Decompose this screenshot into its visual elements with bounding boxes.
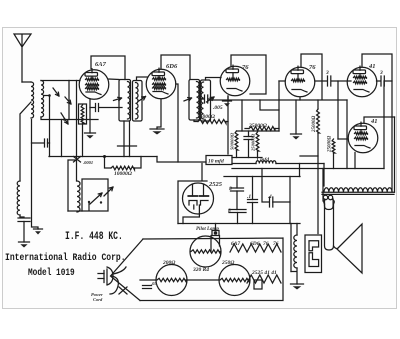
bus A y156.5: [49, 156, 157, 158]
outer right rail: [394, 117, 396, 192]
tube V1 6A7: [79, 70, 109, 100]
antenna: [14, 34, 31, 82]
grid wire: [279, 80, 285, 82]
resistor vertical second: [332, 139, 335, 153]
osc winding primary: [119, 80, 131, 122]
bus y163.5: [232, 163, 324, 165]
resistor 25000 first: [194, 120, 228, 122]
wire grid return: [41, 117, 98, 120]
osc arrow 2: [138, 97, 146, 102]
svg-text:6A7: 6A7: [95, 61, 107, 68]
rail x347: [346, 100, 348, 169]
capacitor right: [377, 80, 393, 82]
tuning gang vertical 1: [68, 81, 70, 120]
ground 6A7: [85, 132, 96, 134]
volume junction X: [74, 157, 81, 163]
cathode wire: [354, 153, 356, 169]
svg-text:.05: .05: [151, 281, 157, 286]
svg-text:Cord: Cord: [93, 297, 103, 302]
jog to grid return: [260, 100, 279, 110]
IF arrow 2: [207, 97, 215, 102]
cathode out: [183, 205, 199, 224]
tube V3 76: [220, 66, 250, 96]
filament string 1: [230, 244, 281, 252]
tap box: [254, 280, 262, 289]
capacitor .05: [143, 285, 152, 287]
ground 76 cathode: [223, 100, 232, 102]
divider resistor loops: [324, 188, 392, 192]
filter cap 8b: [229, 209, 246, 211]
right cap rail x384: [383, 81, 385, 169]
switch X: [119, 287, 127, 294]
capacitor mid: [248, 131, 250, 158]
chassis funnel: [111, 239, 144, 301]
svg-text:76: 76: [242, 64, 249, 71]
tube V4 76: [285, 67, 315, 97]
svg-text:8: 8: [228, 208, 231, 214]
grid cap loop 6D6: [161, 55, 190, 79]
wire IF secondary return: [200, 99, 212, 100]
svg-text:41: 41: [370, 118, 378, 125]
svg-text:25000Ω: 25000Ω: [312, 116, 317, 134]
rail x31.5: [32, 120, 39, 230]
resistor 200 ohm: [156, 265, 187, 296]
svg-text:6D6: 6D6: [250, 241, 260, 247]
AVC rail: [19, 115, 21, 181]
power cord squiggle: [110, 276, 118, 294]
ground 6D6: [150, 128, 164, 130]
tube V5 41: [347, 67, 377, 97]
svg-text:Model 1019: Model 1019: [28, 267, 75, 278]
svg-text:6A7: 6A7: [231, 241, 240, 247]
trimmer arrow: [104, 187, 113, 196]
resistor 25000 second: [249, 127, 275, 131]
switch arrow: [90, 193, 102, 204]
resistor vertical 25000: [317, 109, 320, 133]
bus step: [157, 157, 206, 163]
resistor 250000 vertical: [256, 132, 259, 151]
resistor 10000 loop: [105, 157, 142, 169]
wire plate to coil: [109, 78, 119, 81]
svg-text:2525 41 41: 2525 41 41: [251, 270, 277, 276]
svg-text:.1: .1: [268, 194, 272, 200]
cap box bottom: [178, 223, 300, 225]
grid cap loop: [364, 117, 395, 123]
wire to padder: [68, 160, 77, 211]
wavy 1 mfd: [256, 161, 276, 164]
IF winding primary: [189, 80, 200, 121]
speaker driver: [325, 204, 334, 250]
wire 76 plate down: [227, 96, 229, 154]
drop x242: [241, 100, 243, 131]
svg-text:10 mfd: 10 mfd: [208, 159, 224, 165]
speaker horn: [337, 224, 362, 273]
lamp leads: [211, 236, 220, 253]
wire to driver: [322, 169, 324, 202]
ground mid right: [291, 133, 302, 135]
wave trap coil: [17, 181, 20, 215]
wire osc to 6D6: [137, 77, 148, 81]
svg-text:25000Ω: 25000Ω: [328, 136, 333, 154]
series cap: [262, 169, 290, 203]
filter cap 8a: [236, 177, 238, 210]
junction line y131: [237, 130, 280, 132]
cathode wire 6A7: [89, 99, 91, 133]
svg-text:International Radio Corp.: International Radio Corp.: [5, 251, 126, 263]
antenna coil primary: [31, 82, 34, 118]
stator vertical: [49, 95, 51, 157]
ground field: [291, 268, 297, 284]
label IF frequency: [65, 230, 123, 243]
svg-text:76: 76: [309, 64, 316, 71]
svg-text:500000Ω: 500000Ω: [230, 132, 235, 150]
wire 200 to 250: [187, 279, 219, 281]
capacitor cathode: [95, 104, 97, 112]
osc winding secondary: [133, 81, 143, 122]
wire IF to 76 grid: [206, 78, 222, 81]
cathode 76: [227, 96, 229, 100]
tuning gang vertical 2 / volume feed: [76, 81, 78, 182]
gang vertical 3: [61, 120, 63, 157]
chassis box: [140, 238, 283, 301]
label model: [28, 267, 75, 278]
svg-text:76: 76: [273, 241, 279, 247]
output transformer: [305, 235, 322, 273]
coupling capacitor: [315, 80, 351, 82]
cap box top: [224, 176, 300, 178]
lamp shunt U: [325, 199, 334, 210]
grid cap loop: [301, 54, 322, 99]
drop to cap box: [299, 164, 301, 177]
ground small: [34, 228, 43, 230]
wires to field coil: [291, 224, 297, 272]
capacitor avc: [32, 142, 50, 144]
wire ground mid right: [295, 100, 297, 134]
capacitor .005: [204, 95, 206, 103]
antenna coil secondary: [41, 81, 44, 117]
wire x290: [289, 177, 291, 224]
tube V2 6D6: [146, 69, 176, 99]
svg-text:25000Ω: 25000Ω: [196, 114, 216, 120]
tube V6 41 output: [348, 123, 378, 153]
grid cap loop 6A7: [91, 56, 125, 80]
tuning cap arrow 1: [53, 88, 59, 96]
svg-text:3: 3: [379, 70, 383, 76]
ground trap: [19, 241, 30, 243]
resistor 500000 vertical: [235, 131, 238, 150]
tuning cap arrow 3: [61, 113, 68, 124]
tube V7 2525: [183, 183, 214, 214]
IF winding secondary: [201, 80, 211, 121]
padder coil: [77, 181, 80, 212]
label company: [5, 251, 126, 263]
svg-text:76: 76: [263, 241, 269, 247]
wire secondary tap: [44, 95, 50, 97]
ballast 320 R4: [190, 236, 221, 267]
wire 6D6 plate down: [176, 84, 178, 162]
wire secondary to 6A7 grid: [41, 80, 80, 82]
plates 2525: [188, 195, 208, 197]
svg-text:I.F. 448 KC.: I.F. 448 KC.: [65, 230, 123, 243]
tuning cap arrow 2: [65, 97, 71, 104]
grid wire: [338, 138, 348, 140]
svg-text:320 R4: 320 R4: [192, 267, 209, 273]
drop to divider left: [323, 164, 325, 187]
cathode wire: [299, 98, 301, 101]
svg-text:2525: 2525: [208, 181, 223, 188]
svg-text:3: 3: [325, 70, 329, 76]
bus B plus y168.5: [232, 168, 384, 170]
capacitor below: [20, 215, 24, 217]
power plug: [98, 274, 104, 279]
wire coil bottoms ladder: [118, 121, 137, 157]
osc arrow 1: [114, 97, 122, 100]
resistor 250 ohm: [219, 265, 250, 296]
wire antenna to coil: [22, 81, 31, 83]
svg-text:41: 41: [368, 63, 376, 70]
wire cathode bias: [90, 107, 122, 109]
svg-text:.005: .005: [213, 105, 223, 111]
svg-text:10000Ω: 10000Ω: [114, 171, 133, 177]
svg-text:6D6: 6D6: [166, 63, 178, 70]
svg-text:.1: .1: [247, 194, 251, 200]
wire funnel to 200 ohm: [140, 279, 156, 281]
filament string 2: [247, 275, 281, 283]
grid cap loop 76: [231, 55, 266, 94]
pilot lamp: [212, 231, 219, 236]
resistor R1 boxed: [79, 104, 87, 124]
svg-text:250Ω: 250Ω: [221, 260, 235, 266]
wire 2525 loop: [178, 164, 207, 224]
filaments 2525: [189, 201, 208, 210]
wire R1 to bus: [82, 124, 84, 157]
divider baseline: [322, 192, 394, 194]
B+ line: [211, 99, 347, 101]
svg-text:25000Ω: 25000Ω: [248, 123, 268, 129]
svg-text:250000Ω: 250000Ω: [251, 133, 256, 152]
padder box: [82, 179, 108, 211]
svg-text:200Ω: 200Ω: [162, 260, 176, 266]
cathode wire 6D6: [157, 100, 161, 130]
bus stub: [232, 157, 262, 159]
junction down: [337, 81, 339, 139]
svg-text:.0001: .0001: [83, 160, 93, 165]
filter cap c: [252, 177, 254, 224]
wire y156 stub: [300, 155, 318, 157]
wire coil tap to AVC rail: [20, 102, 31, 114]
box 10 mfd: [206, 156, 232, 165]
grid return down: [278, 81, 280, 131]
lamp shunt loops: [323, 195, 327, 199]
svg-text:8: 8: [229, 186, 232, 192]
grid cap loop 41: [362, 54, 392, 192]
field coil: [294, 235, 297, 268]
IF arrow 1: [184, 98, 192, 101]
